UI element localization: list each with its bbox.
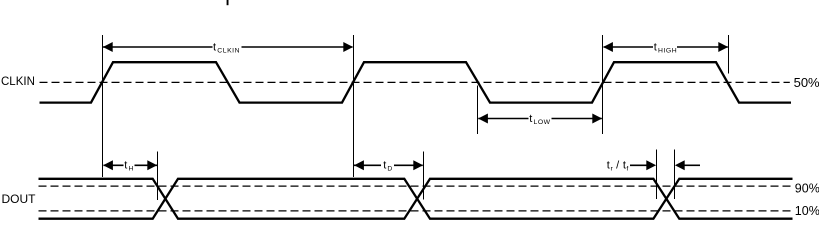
svg-text:t: t: [383, 159, 386, 171]
svg-text:10%: 10%: [795, 204, 819, 218]
svg-text:t: t: [529, 113, 532, 125]
svg-text:HIGH: HIGH: [658, 48, 677, 55]
svg-text:50%: 50%: [794, 75, 819, 90]
svg-text:H: H: [129, 166, 134, 173]
svg-text:t: t: [607, 159, 610, 171]
svg-text:t: t: [124, 159, 127, 171]
svg-text:t: t: [213, 42, 216, 54]
svg-text:f: f: [626, 166, 628, 173]
svg-text:DOUT: DOUT: [2, 192, 37, 206]
svg-text:CLKIN: CLKIN: [217, 48, 240, 55]
svg-text:t: t: [654, 42, 657, 54]
svg-text:CLKIN: CLKIN: [1, 76, 35, 88]
svg-text:90%: 90%: [795, 181, 819, 195]
svg-text:r: r: [611, 166, 614, 173]
svg-text:/: /: [616, 159, 620, 171]
svg-text:D: D: [387, 166, 392, 173]
svg-text:LOW: LOW: [534, 119, 551, 126]
